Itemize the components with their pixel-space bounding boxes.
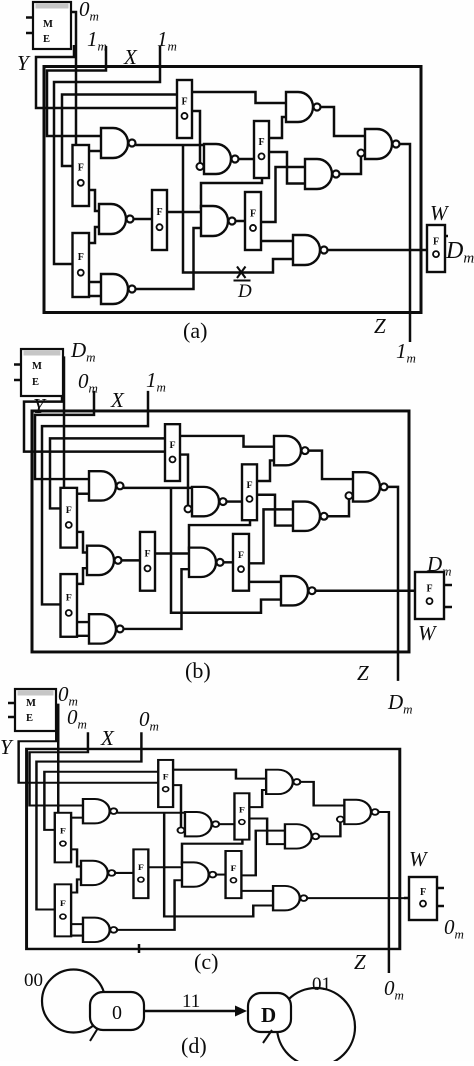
svg-text:Z: Z: [354, 950, 366, 974]
svg-text:(d): (d): [181, 1033, 207, 1058]
state D: [248, 993, 291, 1032]
output flip-flop W (b): [415, 572, 444, 619]
state diagram self-loop right: [277, 988, 355, 1066]
svg-text:D: D: [237, 281, 252, 302]
svg-text:D: D: [261, 1003, 276, 1027]
loop arrowhead right: [263, 1030, 272, 1043]
svg-text:E: E: [26, 713, 33, 724]
svg-text:M: M: [26, 698, 36, 709]
svg-text:W: W: [430, 201, 450, 225]
transition arrow 0 to D: [144, 1010, 240, 1013]
memory element ME (c): [15, 689, 56, 731]
circuit (a): [36, 12, 427, 342]
svg-text:F: F: [433, 237, 439, 248]
svg-text:X: X: [100, 726, 115, 750]
output flip-flop W (c): [409, 877, 437, 920]
wire patch to output box (c): [404, 897, 410, 900]
svg-text:F: F: [420, 887, 426, 898]
circuit (b): [24, 358, 415, 681]
svg-text:Z: Z: [357, 661, 369, 685]
svg-text:M: M: [43, 19, 53, 30]
svg-text:01: 01: [312, 974, 331, 995]
loop arrowhead left: [90, 1028, 98, 1041]
node D cross mark: [234, 267, 251, 281]
svg-text:11: 11: [182, 991, 200, 1012]
tick on bottom border (c): [138, 944, 141, 953]
svg-text:W: W: [418, 621, 438, 645]
svg-text:X: X: [110, 388, 125, 412]
state 0: [90, 992, 144, 1030]
output flip-flop W (a): [427, 225, 445, 272]
memory element ME (b): [21, 349, 63, 396]
memory element ME (a): [33, 2, 71, 49]
svg-text:Z: Z: [374, 314, 386, 338]
svg-text:(b): (b): [185, 658, 211, 683]
svg-text:E: E: [32, 377, 39, 388]
svg-text:W: W: [409, 847, 429, 871]
svg-text:(a): (a): [183, 318, 207, 343]
state diagram self-loop left: [42, 970, 105, 1033]
svg-text:0: 0: [112, 1002, 122, 1024]
svg-text:F: F: [426, 584, 432, 595]
svg-text:X: X: [123, 45, 138, 69]
svg-text:M: M: [32, 361, 42, 372]
svg-text:(c): (c): [194, 949, 218, 974]
circuit (c): [19, 705, 406, 973]
svg-text:00: 00: [24, 970, 43, 991]
svg-text:E: E: [43, 34, 50, 45]
